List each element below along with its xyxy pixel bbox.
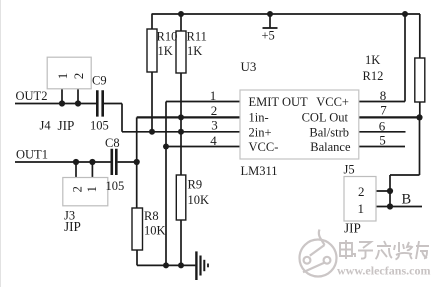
node J5 pin2 [387,188,393,194]
resistor R8 [132,208,143,265]
svg-text:R8: R8 [144,209,159,223]
wire J4 stubs [62,89,78,104]
svg-text:Bal/strb: Bal/strb [309,125,349,139]
svg-text:8: 8 [380,88,387,103]
glyph shao [394,242,412,260]
ground [196,251,208,280]
node pin7 R12 [416,114,422,120]
glyph zi [358,242,373,259]
svg-text:OUT2: OUT2 [16,89,48,103]
svg-text:JIP: JIP [344,221,361,236]
wire pin2 thick [137,116,240,118]
wire pin7 to J5 [390,117,420,206]
node J4 pin1 [59,100,65,106]
svg-text:105: 105 [90,118,109,132]
svg-text:105: 105 [106,179,125,193]
node +5 [267,11,273,17]
svg-text:1K: 1K [365,53,380,67]
capacitor C9 [97,90,102,116]
svg-text:JIP: JIP [64,219,81,234]
resistor R11 [176,14,186,175]
node gnd R9 [178,262,184,268]
svg-text:LM311: LM311 [241,164,278,178]
node gnd pin4 [163,262,169,268]
node R11 top [178,11,184,17]
svg-text:1in-: 1in- [249,110,269,124]
svg-text:Balance: Balance [310,140,351,154]
op-amp U3 LM311 box [240,90,359,159]
svg-text:4: 4 [210,133,217,148]
resistor R12 [415,14,425,117]
svg-text:R11: R11 [187,30,207,44]
node R11 pin3 [178,129,184,135]
resistor R10 [147,14,157,132]
power +5 [263,14,278,28]
svg-text:1: 1 [55,73,70,80]
watermark text [340,240,429,260]
node J3 pin2 [73,159,79,165]
capacitor C8 [112,149,117,175]
wire pin1 to pin4 and ground [166,102,240,266]
wire pin2 down to R8 [136,117,138,208]
page edge shade [0,0,2,287]
wire top +5 rail [152,13,421,15]
svg-text:1K: 1K [158,44,173,58]
node pin8 top [402,11,408,17]
svg-text:2: 2 [71,73,86,80]
connector J5 [344,177,376,222]
wire pin6 stub [359,131,406,133]
svg-text:C9: C9 [92,74,107,88]
svg-text:OUT1: OUT1 [16,148,48,162]
svg-text:3: 3 [211,118,218,133]
wire pin5 stub [359,146,405,148]
svg-text:2: 2 [358,184,365,199]
svg-text:R9: R9 [188,178,203,192]
svg-text:1K: 1K [187,44,202,58]
svg-text:VCC+: VCC+ [316,95,349,109]
svg-text:VCC-: VCC- [249,140,279,154]
wire J5 pin stubs [376,191,390,207]
svg-text:10K: 10K [144,224,166,238]
svg-text:2in+: 2in+ [249,125,272,139]
wire pin7 thick [359,116,420,118]
svg-text:U3: U3 [241,59,257,74]
node R11 pin2 [178,114,184,120]
node R10 pin3 [149,129,155,135]
glyph dian [340,240,355,259]
svg-text:2: 2 [211,103,218,118]
node C8 pin2 [134,159,140,165]
glyph fa [376,241,393,259]
svg-text:B: B [402,192,412,208]
node J4 pin2 [75,100,81,106]
svg-text:R10: R10 [157,30,178,44]
wire B net [390,206,422,208]
wire OUT2 [15,103,96,105]
wire J3 stubs [76,162,92,178]
connector J4 [47,57,91,89]
svg-text:10K: 10K [188,193,210,207]
wire pin4 [166,146,240,148]
wire ground rail [137,264,195,266]
wire OUT1 [15,161,137,163]
svg-text:1: 1 [210,88,217,103]
node J5 pin1 [387,203,393,209]
svg-text:+5: +5 [262,29,275,43]
svg-text:2: 2 [71,186,85,192]
svg-text:C8: C8 [105,136,120,150]
svg-text:COL Out: COL Out [302,110,349,124]
watermark logo elecfans [300,230,337,277]
wire pin3 to C9 [104,104,240,132]
svg-text:R12: R12 [363,69,384,83]
svg-text:JIP: JIP [58,118,75,133]
wire pin8 to +5 rail [359,14,405,102]
resistor R9 [176,175,186,265]
node pin4 [163,144,169,150]
svg-text:J5: J5 [344,163,355,177]
svg-text:J4: J4 [40,119,52,133]
svg-text:www.elecfans.com: www.elecfans.com [337,265,431,278]
svg-text:EMIT OUT: EMIT OUT [249,95,309,109]
svg-text:7: 7 [380,102,387,117]
svg-text:5: 5 [379,133,386,148]
svg-text:1: 1 [85,186,99,192]
glyph you [416,241,429,259]
connector J3 [63,178,108,206]
svg-text:6: 6 [379,118,386,133]
svg-text:1: 1 [357,201,364,216]
node J3 pin1 [89,159,95,165]
